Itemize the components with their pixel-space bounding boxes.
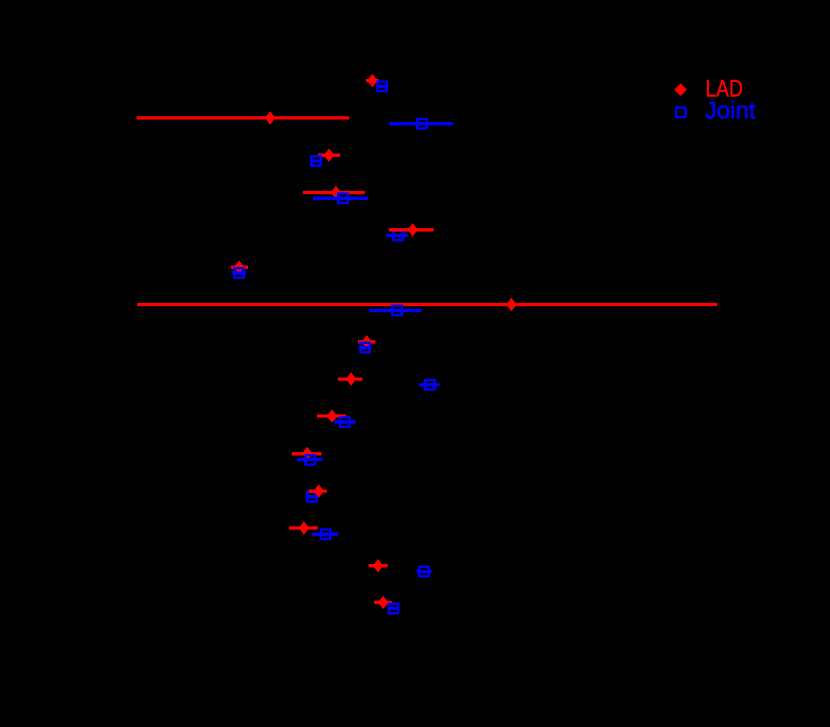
- row 2 LAD errorbar: [137, 116, 350, 119]
- row 15 Joint errorbar: [388, 607, 399, 610]
- row 12 LAD diamond: [314, 484, 324, 497]
- row 8 LAD diamond: [362, 335, 372, 348]
- row 4 Joint square: [338, 194, 348, 204]
- row 2 LAD diamond: [265, 111, 275, 124]
- svg-text:Joint: Joint: [705, 98, 756, 125]
- row 12 LAD errorbar: [309, 489, 327, 492]
- row 1 LAD diamond: [367, 74, 377, 87]
- row 7 Joint errorbar: [369, 309, 421, 312]
- row 11 LAD diamond: [302, 447, 312, 460]
- row 2 Joint errorbar: [389, 122, 453, 125]
- row 6 Joint errorbar: [232, 271, 246, 274]
- row 3 LAD diamond: [324, 149, 334, 162]
- row 10 Joint errorbar: [334, 420, 356, 423]
- row 3 Joint errorbar: [310, 159, 321, 162]
- row 9 Joint square: [425, 380, 435, 390]
- row 13 Joint square: [321, 529, 331, 539]
- row 9 LAD errorbar: [338, 377, 363, 380]
- row 14 Joint square: [419, 567, 429, 577]
- row 12 Joint square: [307, 492, 317, 502]
- row 12 Joint errorbar: [306, 495, 318, 498]
- row 10 LAD diamond: [327, 409, 337, 422]
- row 11 LAD errorbar: [292, 452, 322, 455]
- row 15 LAD diamond: [378, 596, 388, 609]
- row 6 LAD errorbar: [231, 266, 248, 269]
- row 5 Joint square: [393, 231, 403, 241]
- row 8 LAD errorbar: [358, 340, 375, 343]
- row 1 Joint errorbar: [377, 85, 389, 88]
- row 5 LAD errorbar: [389, 228, 434, 231]
- row 13 Joint errorbar: [312, 533, 338, 536]
- row 4 LAD errorbar: [303, 191, 365, 194]
- row 13 LAD diamond: [299, 521, 309, 534]
- row 3 Joint square: [311, 156, 321, 166]
- row 5 Joint errorbar: [386, 234, 408, 237]
- row 14 Joint errorbar: [416, 570, 431, 573]
- row 6 LAD diamond: [234, 261, 244, 274]
- row 11 Joint errorbar: [297, 458, 323, 461]
- row 10 LAD errorbar: [317, 414, 346, 417]
- row 7 LAD errorbar: [137, 303, 717, 306]
- row 14 LAD errorbar: [369, 564, 388, 567]
- row 1 Joint square: [377, 82, 387, 92]
- row 1 LAD errorbar: [366, 79, 379, 82]
- row 7 LAD diamond: [506, 298, 516, 311]
- row 15 LAD errorbar: [374, 601, 392, 604]
- row 10 Joint square: [340, 417, 350, 427]
- legend Joint marker: [676, 108, 686, 118]
- row 7 Joint square: [392, 306, 402, 316]
- row 11 Joint square: [306, 455, 316, 465]
- row 9 Joint errorbar: [419, 383, 440, 386]
- row 14 LAD diamond: [373, 559, 383, 572]
- row 13 LAD errorbar: [289, 526, 318, 529]
- row 2 Joint square: [417, 119, 427, 129]
- row 6 Joint square: [234, 268, 244, 278]
- row 5 LAD diamond: [408, 223, 418, 236]
- legend LAD marker: [674, 83, 687, 96]
- row 9 LAD diamond: [346, 372, 356, 385]
- row 8 Joint square: [360, 343, 370, 353]
- row 4 Joint errorbar: [313, 197, 368, 200]
- row 8 Joint errorbar: [360, 346, 372, 349]
- row 15 Joint square: [389, 604, 399, 614]
- row 4 LAD diamond: [331, 186, 341, 199]
- row 3 LAD errorbar: [318, 154, 340, 157]
